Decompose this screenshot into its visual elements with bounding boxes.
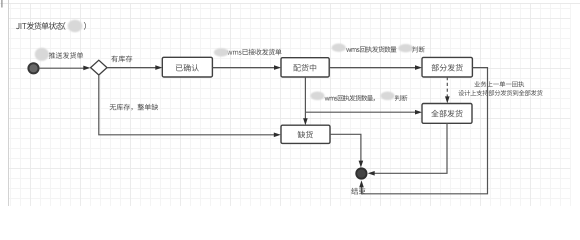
edge label wms回执发货数量…判断 — [332, 44, 425, 53]
wire decision→已确认 with arrowhead — [107, 65, 162, 70]
wire 部分发货→结束 (right side, down, across bottom, up) with arrowhead — [359, 68, 487, 194]
redaction blob in title — [68, 20, 83, 32]
end node 结束 (final state) — [356, 168, 366, 178]
dashed wire 部分发货→全部发货 with arrowhead — [445, 77, 450, 103]
wire 缺货→结束 (right, down) with arrowhead — [330, 134, 363, 167]
start node (initial state) — [28, 63, 38, 73]
wire 配货中→部分发货 with arrowhead — [329, 65, 422, 70]
wire 已确认→配货中 with arrowhead — [212, 65, 281, 70]
edge label wms回执发货数量，…判断 — [310, 92, 407, 102]
decision diamond (库存判断) — [91, 60, 107, 75]
state box 缺货 — [281, 125, 330, 143]
wire 配货中(junction)→全部发货 with arrowhead — [305, 110, 422, 115]
state box 已确认 — [162, 57, 212, 77]
state box 配货中 — [281, 58, 329, 77]
annotation 业务上一单一回执 / 设计上支持部分发货到全部发货 — [458, 81, 542, 96]
state box 全部发货 — [422, 104, 472, 124]
edge label 无库存，整单缺 — [110, 104, 159, 111]
wire decision→缺货 (down, right) with arrowhead — [99, 75, 281, 137]
title JIT发货单状态（…） — [16, 22, 86, 30]
wire 全部发货→结束 (down, left) with arrowhead — [368, 123, 447, 175]
edge label wms已接收发货单 — [214, 48, 282, 56]
node label 结束 — [351, 188, 365, 195]
state box 部分发货 — [422, 57, 472, 77]
wire 配货中→缺货 with arrowhead — [303, 77, 308, 125]
edge label 推送发货单 — [35, 48, 83, 61]
wire start→decision with arrowhead — [39, 66, 91, 71]
edge label 有库存 — [111, 56, 132, 63]
